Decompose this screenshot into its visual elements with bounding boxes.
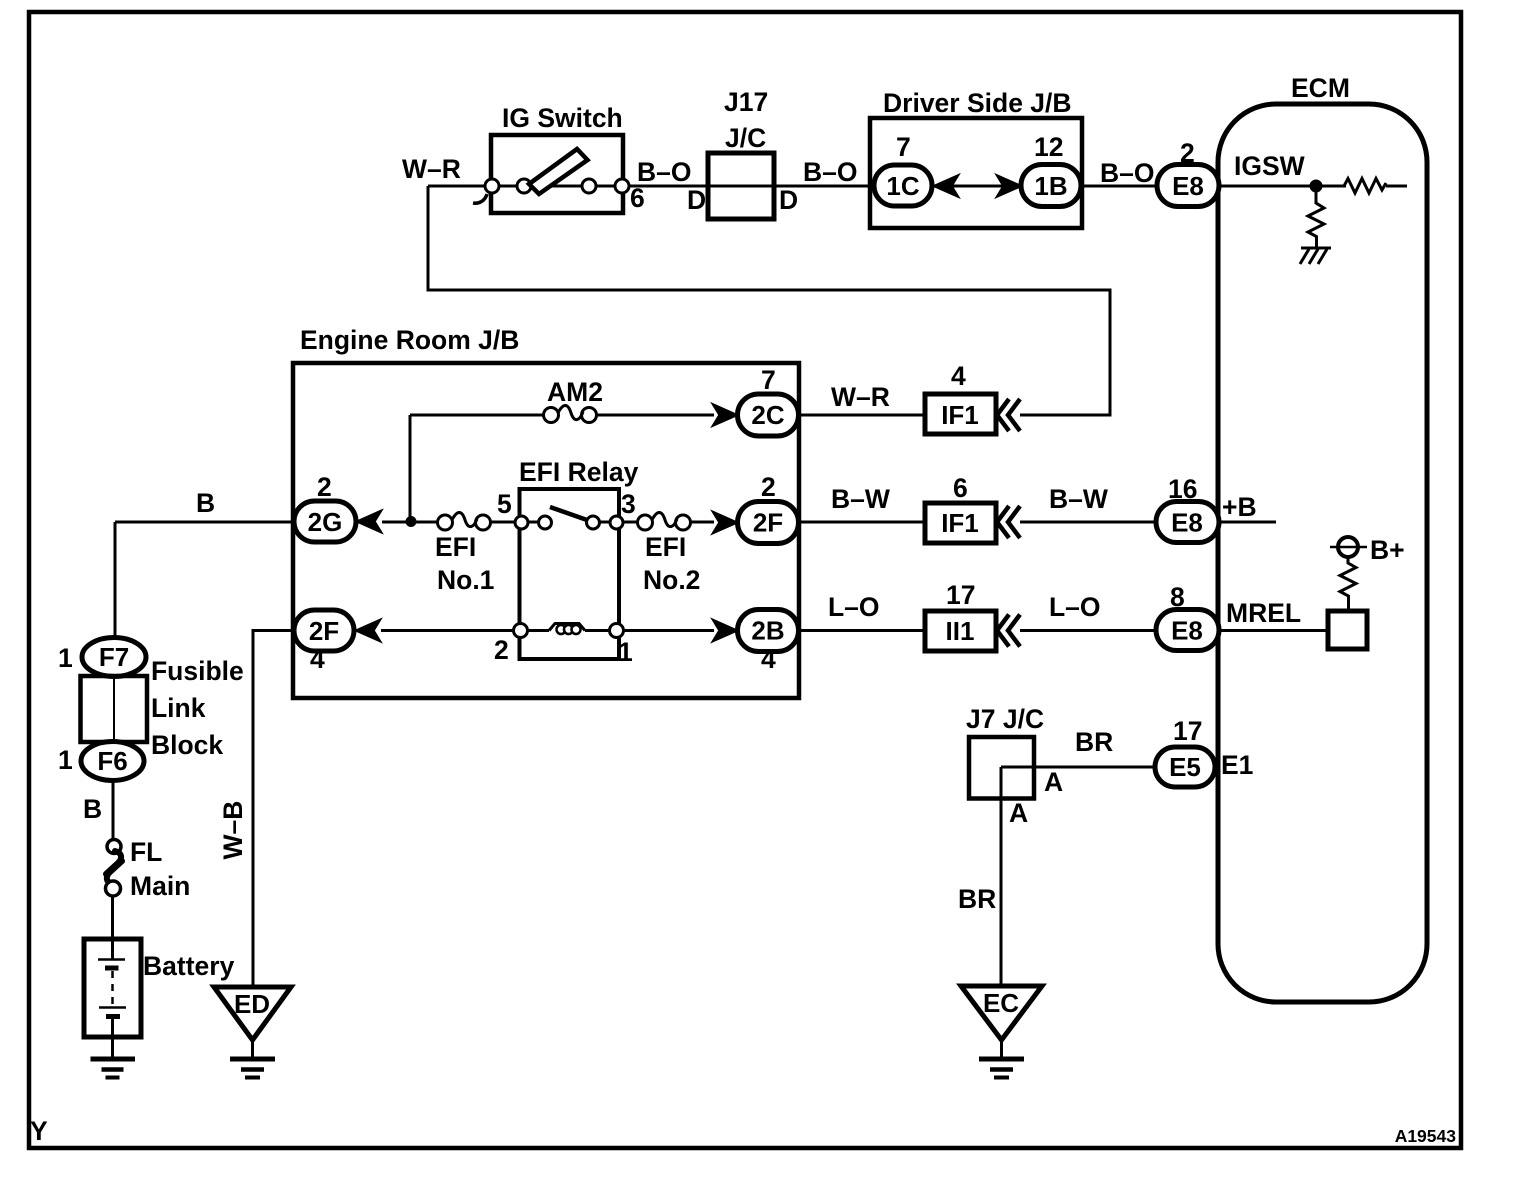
svg-text:L–O: L–O <box>828 592 880 622</box>
svg-text:IF1: IF1 <box>941 508 979 538</box>
svg-text:12: 12 <box>1034 132 1063 162</box>
svg-text:Driver Side J/B: Driver Side J/B <box>883 88 1072 118</box>
svg-text:2B: 2B <box>751 616 784 646</box>
svg-text:B–O: B–O <box>637 157 692 187</box>
svg-text:F6: F6 <box>97 746 127 776</box>
svg-text:IGSW: IGSW <box>1234 151 1305 181</box>
svg-text:E8: E8 <box>1171 508 1203 538</box>
svg-text:No.2: No.2 <box>643 565 700 595</box>
svg-text:2: 2 <box>317 472 332 502</box>
svg-text:6: 6 <box>953 473 968 503</box>
svg-text:B–W: B–W <box>1049 484 1108 514</box>
svg-text:D: D <box>687 185 706 215</box>
svg-text:IF1: IF1 <box>941 400 979 430</box>
svg-text:+B: +B <box>1222 492 1257 522</box>
svg-text:2: 2 <box>761 472 776 502</box>
svg-text:2C: 2C <box>751 400 784 430</box>
svg-text:E1: E1 <box>1221 750 1253 780</box>
svg-text:A: A <box>1009 798 1028 828</box>
svg-text:W–R: W–R <box>831 382 890 412</box>
svg-text:E8: E8 <box>1171 616 1203 646</box>
svg-text:4: 4 <box>761 644 776 674</box>
svg-text:7: 7 <box>896 132 911 162</box>
svg-text:Block: Block <box>151 730 223 760</box>
svg-text:Fusible: Fusible <box>151 656 244 686</box>
svg-text:FL: FL <box>130 837 162 867</box>
svg-text:Link: Link <box>151 693 206 723</box>
svg-text:J17: J17 <box>724 87 768 117</box>
svg-text:MREL: MREL <box>1226 598 1301 628</box>
svg-text:EC: EC <box>983 988 1019 1018</box>
svg-text:17: 17 <box>1173 716 1202 746</box>
svg-text:2G: 2G <box>308 507 343 537</box>
svg-text:J/C: J/C <box>725 123 766 153</box>
svg-text:7: 7 <box>761 365 776 395</box>
svg-text:F7: F7 <box>99 642 129 672</box>
svg-text:AM2: AM2 <box>547 377 603 407</box>
svg-text:ED: ED <box>234 989 270 1019</box>
svg-text:D: D <box>779 185 798 215</box>
svg-text:IG Switch: IG Switch <box>502 103 623 133</box>
svg-text:BR: BR <box>958 884 996 914</box>
svg-text:1: 1 <box>58 745 73 775</box>
svg-text:J7 J/C: J7 J/C <box>966 704 1044 734</box>
svg-text:1C: 1C <box>886 171 919 201</box>
svg-text:1B: 1B <box>1034 171 1067 201</box>
svg-text:L–O: L–O <box>1049 592 1101 622</box>
svg-text:5: 5 <box>497 489 512 519</box>
svg-text:6: 6 <box>630 183 645 213</box>
svg-text:B–O: B–O <box>803 157 858 187</box>
svg-text:E8: E8 <box>1172 171 1204 201</box>
svg-text:EFI Relay: EFI Relay <box>519 457 639 487</box>
svg-text:W–R: W–R <box>402 154 461 184</box>
svg-text:II1: II1 <box>946 616 975 646</box>
svg-text:EFI: EFI <box>645 532 686 562</box>
svg-text:ECM: ECM <box>1291 73 1350 103</box>
svg-text:2: 2 <box>494 635 509 665</box>
svg-text:B–O: B–O <box>1100 158 1155 188</box>
svg-text:No.1: No.1 <box>437 565 494 595</box>
svg-text:Engine Room J/B: Engine Room J/B <box>300 325 519 355</box>
svg-text:B: B <box>83 794 102 824</box>
svg-text:B–W: B–W <box>831 484 890 514</box>
svg-text:4: 4 <box>951 361 966 391</box>
svg-text:A19543: A19543 <box>1395 1126 1457 1146</box>
svg-text:4: 4 <box>310 644 325 674</box>
svg-text:Battery: Battery <box>143 951 235 981</box>
svg-text:A: A <box>1044 767 1063 797</box>
svg-text:1: 1 <box>58 643 73 673</box>
svg-text:2F: 2F <box>309 616 339 646</box>
svg-text:EFI: EFI <box>435 532 476 562</box>
svg-text:2F: 2F <box>753 508 783 538</box>
svg-text:E5: E5 <box>1169 752 1201 782</box>
svg-text:BR: BR <box>1075 727 1113 757</box>
svg-text:1: 1 <box>618 637 633 667</box>
svg-text:3: 3 <box>621 489 636 519</box>
svg-text:Y: Y <box>30 1116 48 1146</box>
svg-text:W–B: W–B <box>218 801 248 860</box>
svg-text:B: B <box>196 488 215 518</box>
svg-text:Main: Main <box>130 871 190 901</box>
svg-text:17: 17 <box>946 580 975 610</box>
svg-text:B+: B+ <box>1370 535 1405 565</box>
